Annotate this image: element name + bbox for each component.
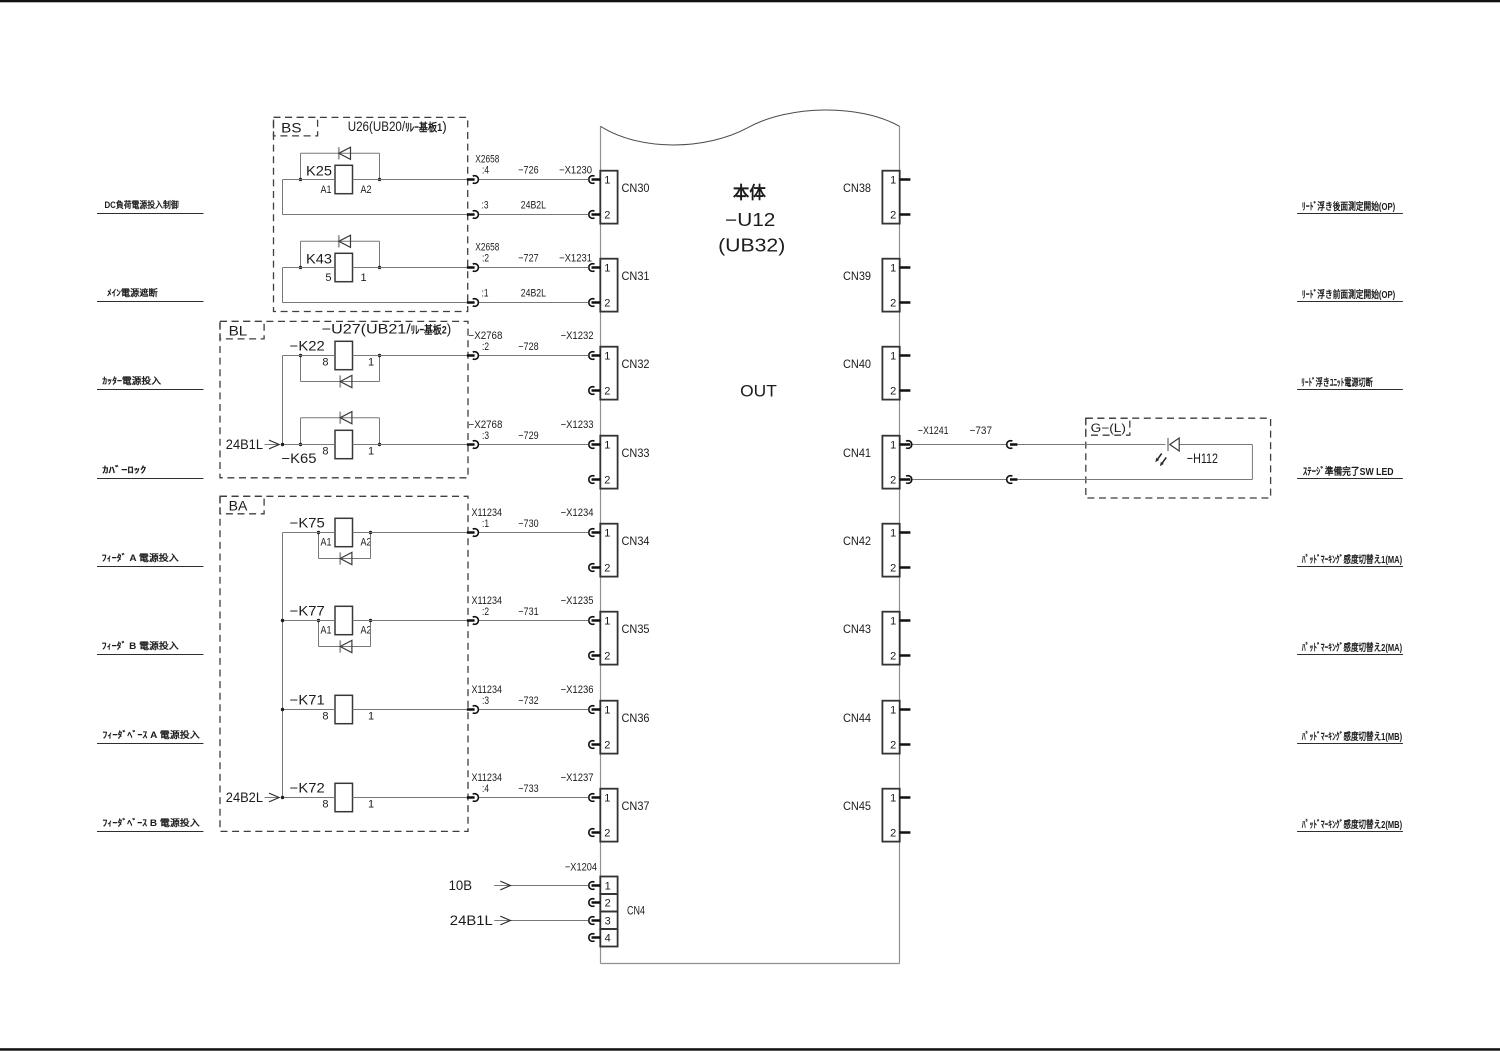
CN37 pin 1 socket bbox=[589, 794, 601, 802]
svg-text:1: 1 bbox=[604, 528, 610, 540]
LED emission arrows bbox=[1155, 454, 1166, 467]
CN44 pin 2 stub bbox=[900, 743, 911, 746]
svg-text:1: 1 bbox=[890, 793, 896, 805]
wire K43 return loop bbox=[283, 268, 589, 303]
connector CN40 bbox=[882, 347, 899, 400]
svg-text:ｶｯﾀｰ電源投入: ｶｯﾀｰ電源投入 bbox=[102, 375, 161, 386]
svg-text::2: :2 bbox=[482, 606, 489, 618]
svg-text:2: 2 bbox=[890, 563, 896, 575]
svg-text:A2: A2 bbox=[361, 536, 372, 548]
net label ﾊﾟｯﾄﾞﾏｰｷﾝｸﾞ感度切替え2(MB) bbox=[1297, 818, 1403, 831]
net label ﾊﾟｯﾄﾞﾏｰｷﾝｸﾞ感度切替え1(MB) bbox=[1297, 730, 1403, 743]
svg-text:ｶﾊﾞｰﾛｯｸ: ｶﾊﾞｰﾛｯｸ bbox=[102, 464, 147, 475]
svg-text:−X1231: −X1231 bbox=[559, 253, 592, 265]
svg-text:8: 8 bbox=[322, 445, 328, 457]
svg-text:CN30: CN30 bbox=[622, 181, 650, 195]
svg-text:ﾘﾚｰ基板1: ﾘﾚｰ基板1 bbox=[405, 120, 442, 134]
sheet top border bbox=[0, 0, 1500, 2]
svg-text:2: 2 bbox=[890, 651, 896, 663]
CN38 pin 2 stub bbox=[900, 213, 911, 216]
CN36 pin 1 socket bbox=[589, 706, 601, 714]
svg-text:2: 2 bbox=[604, 298, 610, 310]
svg-text:ﾌｨｰﾀﾞﾍﾞｰｽ B 電源投入: ﾌｨｰﾀﾞﾍﾞｰｽ B 電源投入 bbox=[102, 817, 199, 828]
svg-text:CN38: CN38 bbox=[843, 181, 871, 195]
24B2L rail BA bbox=[282, 533, 284, 798]
connector CN30 bbox=[600, 171, 617, 224]
net label ﾊﾟｯﾄﾞﾏｰｷﾝｸﾞ感度切替え2(MA) bbox=[1297, 641, 1403, 654]
CN42 pin 1 stub bbox=[900, 531, 911, 534]
svg-text:ﾌｨｰﾀﾞ B 電源投入: ﾌｨｰﾀﾞ B 電源投入 bbox=[102, 640, 179, 651]
svg-text:1: 1 bbox=[368, 798, 374, 810]
svg-text:−K75: −K75 bbox=[290, 516, 325, 531]
wire −K65 coil row bbox=[283, 444, 589, 446]
junction bbox=[281, 443, 284, 446]
svg-text:ﾘｰﾄﾞ浮き後面測定開始(OP): ﾘｰﾄﾞ浮き後面測定開始(OP) bbox=[1302, 200, 1395, 213]
CN33 pin 1 socket bbox=[589, 441, 601, 449]
svg-text:2: 2 bbox=[604, 386, 610, 398]
svg-text:24B1L: 24B1L bbox=[450, 912, 493, 928]
CN41 pin1 receptacle bbox=[906, 441, 912, 449]
junction bbox=[317, 619, 320, 622]
svg-text:−727: −727 bbox=[518, 253, 538, 265]
svg-text:−K22: −K22 bbox=[290, 339, 325, 354]
connector CN33 bbox=[600, 436, 617, 489]
boundary connector pair bbox=[467, 299, 479, 307]
junction bbox=[378, 443, 381, 446]
svg-text:A1: A1 bbox=[321, 536, 332, 548]
CN32 pin 2 socket bbox=[589, 387, 601, 395]
wire K43 coil row bbox=[283, 267, 589, 269]
CN33 pin 2 socket bbox=[589, 476, 601, 484]
relay K43 bbox=[306, 252, 367, 284]
svg-text:8: 8 bbox=[322, 710, 328, 722]
svg-text:CN44: CN44 bbox=[843, 711, 871, 725]
svg-text:10B: 10B bbox=[449, 877, 472, 893]
svg-text:−X1232: −X1232 bbox=[561, 330, 594, 342]
net label ｶｯﾀｰ電源投入 bbox=[97, 375, 203, 390]
boundary connector pair bbox=[467, 794, 479, 802]
svg-text:2: 2 bbox=[890, 828, 896, 840]
svg-text:3: 3 bbox=[605, 916, 611, 928]
junction bbox=[299, 354, 302, 357]
junction bbox=[299, 178, 302, 181]
connector CN44 bbox=[882, 701, 899, 754]
svg-text:5: 5 bbox=[325, 272, 331, 284]
board title U26(UB20/リレー基板1) bbox=[348, 119, 447, 134]
svg-text:4: 4 bbox=[605, 933, 611, 945]
wire K25 coil row bbox=[283, 179, 589, 181]
svg-text:DC負荷電源投入制御: DC負荷電源投入制御 bbox=[105, 199, 179, 210]
CN39 pin 1 stub bbox=[900, 266, 911, 269]
svg-text:24B1L: 24B1L bbox=[226, 436, 263, 452]
CN38 pin 1 stub bbox=[900, 178, 911, 181]
CN4 pin 4 socket bbox=[589, 934, 601, 942]
boundary connector pair bbox=[467, 352, 479, 360]
svg-text:OUT: OUT bbox=[740, 381, 777, 400]
svg-text:−730: −730 bbox=[518, 518, 538, 530]
svg-text:1: 1 bbox=[890, 528, 896, 540]
CN32 pin 1 socket bbox=[589, 352, 601, 360]
boundary connector pair bbox=[467, 529, 479, 537]
svg-text:−H112: −H112 bbox=[1187, 450, 1218, 466]
suppressor diode of −K75 bbox=[319, 533, 371, 565]
svg-text:2: 2 bbox=[890, 475, 896, 487]
svg-text:ﾌｨｰﾀﾞﾍﾞｰｽ A 電源投入: ﾌｨｰﾀﾞﾍﾞｰｽ A 電源投入 bbox=[102, 729, 199, 740]
svg-text::1: :1 bbox=[482, 518, 489, 530]
CN40 pin 1 stub bbox=[900, 354, 911, 357]
CN4 pin 1 socket bbox=[589, 882, 601, 890]
CN43 pin 2 stub bbox=[900, 654, 911, 657]
svg-text:8: 8 bbox=[322, 356, 328, 368]
svg-text:BS: BS bbox=[281, 121, 301, 136]
net label ﾘｰﾄﾞ浮き後面測定開始(OP) bbox=[1297, 200, 1403, 213]
svg-text:−737: −737 bbox=[970, 425, 992, 437]
wire −K22 coil row bbox=[283, 355, 589, 357]
relay −K22 bbox=[290, 339, 374, 370]
board title -U27(UB21/リレー基板2) bbox=[322, 321, 451, 336]
svg-text:CN34: CN34 bbox=[622, 534, 650, 548]
svg-text:): ) bbox=[447, 321, 452, 336]
net label ﾌｨｰﾀﾞﾍﾞｰｽ B 電源投入 bbox=[97, 817, 203, 832]
CN39 pin 2 stub bbox=[900, 301, 911, 304]
relay board BS enclosure bbox=[274, 117, 468, 311]
boundary connector pair bbox=[467, 176, 479, 184]
svg-text:2: 2 bbox=[890, 740, 896, 752]
CN37 pin 2 socket bbox=[589, 829, 601, 837]
svg-text:−X1233: −X1233 bbox=[561, 419, 594, 431]
svg-text:1: 1 bbox=[890, 440, 896, 452]
svg-text:−X1241: −X1241 bbox=[918, 425, 949, 437]
svg-text:1: 1 bbox=[368, 710, 374, 722]
svg-text:1: 1 bbox=[368, 445, 374, 457]
svg-text:ﾊﾟｯﾄﾞﾏｰｷﾝｸﾞ感度切替え1(MB): ﾊﾟｯﾄﾞﾏｰｷﾝｸﾞ感度切替え1(MB) bbox=[1301, 730, 1402, 743]
CN45 pin 1 stub bbox=[900, 796, 911, 799]
CN44 pin 1 stub bbox=[900, 708, 911, 711]
svg-text:1: 1 bbox=[890, 351, 896, 363]
svg-text:(UB32): (UB32) bbox=[718, 235, 785, 255]
svg-text:2: 2 bbox=[890, 210, 896, 222]
lamp unit G-(L) enclosure bbox=[1086, 418, 1271, 498]
junction bbox=[369, 531, 372, 534]
connector CN43 bbox=[882, 612, 899, 665]
suppressor diode of −K22 bbox=[301, 356, 380, 388]
svg-text:−X1230: −X1230 bbox=[559, 165, 592, 177]
relay K25 bbox=[306, 164, 372, 196]
junction bbox=[281, 796, 284, 799]
svg-text:CN42: CN42 bbox=[843, 534, 871, 548]
net label ｽﾃｰｼﾞ準備完了SW LED bbox=[1297, 465, 1403, 478]
svg-text:ﾘﾚｰ基板2: ﾘﾚｰ基板2 bbox=[411, 322, 447, 336]
svg-text:2: 2 bbox=[604, 828, 610, 840]
relay −K75 bbox=[290, 516, 372, 549]
svg-text:BA: BA bbox=[229, 499, 248, 514]
CN43 pin 1 stub bbox=[900, 619, 911, 622]
relay −K65 bbox=[282, 430, 375, 466]
svg-text:G−(L): G−(L) bbox=[1091, 421, 1126, 435]
svg-text:A2: A2 bbox=[361, 624, 372, 636]
svg-text:1: 1 bbox=[604, 440, 610, 452]
inline connector pair bbox=[1007, 476, 1018, 484]
CN31 pin 2 socket bbox=[589, 299, 601, 307]
svg-text:1: 1 bbox=[604, 705, 610, 717]
net label ﾌｨｰﾀﾞ A 電源投入 bbox=[97, 552, 203, 567]
wire −K77 coil row bbox=[283, 620, 589, 622]
svg-text:1: 1 bbox=[890, 263, 896, 275]
connector CN4 bbox=[600, 877, 617, 947]
relay board BL enclosure bbox=[220, 321, 468, 477]
connector CN42 bbox=[882, 524, 899, 577]
svg-text:CN39: CN39 bbox=[843, 269, 871, 283]
wire 10B to CN4.1 bbox=[494, 881, 588, 890]
svg-text:24B2L: 24B2L bbox=[521, 200, 546, 212]
suppressor diode of K25 bbox=[301, 147, 380, 179]
svg-text:ﾊﾟｯﾄﾞﾏｰｷﾝｸﾞ感度切替え2(MB): ﾊﾟｯﾄﾞﾏｰｷﾝｸﾞ感度切替え2(MB) bbox=[1301, 818, 1402, 831]
boundary connector pair bbox=[467, 211, 479, 219]
relay board BA enclosure bbox=[220, 496, 468, 831]
junction bbox=[378, 178, 381, 181]
svg-text:1: 1 bbox=[890, 616, 896, 628]
junction bbox=[378, 354, 381, 357]
CN34 pin 2 socket bbox=[589, 564, 601, 572]
net label ﾘｰﾄﾞ浮き前面測定開始(OP) bbox=[1297, 288, 1403, 301]
junction bbox=[317, 531, 320, 534]
svg-text::3: :3 bbox=[482, 430, 489, 442]
sheet bottom border bbox=[0, 1048, 1500, 1051]
svg-text:8: 8 bbox=[322, 798, 328, 810]
unit U12 (UB32) box bbox=[601, 110, 900, 964]
junction bbox=[281, 708, 284, 711]
svg-text::4: :4 bbox=[482, 783, 489, 795]
svg-text:2: 2 bbox=[604, 210, 610, 222]
CN42 pin 2 stub bbox=[900, 566, 911, 569]
svg-text:本体: 本体 bbox=[733, 183, 767, 203]
svg-text:1: 1 bbox=[890, 175, 896, 187]
net label ﾌｨｰﾀﾞ B 電源投入 bbox=[97, 640, 203, 655]
svg-text:−733: −733 bbox=[518, 783, 538, 795]
svg-text::2: :2 bbox=[482, 341, 489, 353]
CN4 pin 2 socket bbox=[589, 899, 601, 907]
svg-text:−729: −729 bbox=[518, 430, 538, 442]
wire lamp return bbox=[912, 445, 1252, 480]
svg-text:−K77: −K77 bbox=[290, 604, 325, 619]
boundary connector pair bbox=[467, 706, 479, 714]
connector CN34 bbox=[600, 524, 617, 577]
suppressor diode of −K77 bbox=[319, 621, 371, 653]
svg-text:ﾒｲﾝ電源遮断: ﾒｲﾝ電源遮断 bbox=[107, 287, 158, 298]
CN35 pin 2 socket bbox=[589, 652, 601, 660]
svg-text:CN37: CN37 bbox=[622, 799, 650, 813]
svg-text:ﾘｰﾄﾞ浮き前面測定開始(OP): ﾘｰﾄﾞ浮き前面測定開始(OP) bbox=[1302, 288, 1395, 301]
svg-text:CN35: CN35 bbox=[622, 622, 650, 636]
junction bbox=[281, 619, 284, 622]
svg-text:CN41: CN41 bbox=[843, 446, 871, 460]
svg-text:−X1235: −X1235 bbox=[561, 595, 594, 607]
svg-text:ﾊﾟｯﾄﾞﾏｰｷﾝｸﾞ感度切替え1(MA): ﾊﾟｯﾄﾞﾏｰｷﾝｸﾞ感度切替え1(MA) bbox=[1301, 553, 1402, 566]
wire −K75 coil row bbox=[283, 532, 589, 534]
connector CN38 bbox=[882, 171, 899, 224]
svg-text:−K65: −K65 bbox=[282, 451, 317, 466]
svg-text:1: 1 bbox=[604, 793, 610, 805]
svg-text:−K71: −K71 bbox=[290, 693, 325, 708]
svg-text:CN4: CN4 bbox=[627, 903, 645, 917]
junction bbox=[299, 443, 302, 446]
svg-text::2: :2 bbox=[482, 253, 489, 265]
svg-text:−X1234: −X1234 bbox=[561, 507, 594, 519]
relay −K71 bbox=[290, 693, 374, 724]
svg-text:1: 1 bbox=[604, 351, 610, 363]
svg-text:1: 1 bbox=[890, 705, 896, 717]
wire CN41.1 to lamp bbox=[912, 444, 1252, 446]
connector CN35 bbox=[600, 612, 617, 665]
wire 24B2L arrow bbox=[265, 793, 280, 802]
wire −K72 coil row bbox=[283, 797, 589, 799]
net label ﾒｲﾝ電源遮断 bbox=[97, 287, 203, 302]
svg-text:1: 1 bbox=[368, 356, 374, 368]
svg-text:CN40: CN40 bbox=[843, 357, 871, 371]
connector CN41 bbox=[882, 436, 899, 489]
svg-text:A2: A2 bbox=[361, 184, 372, 196]
svg-text:−731: −731 bbox=[518, 606, 538, 618]
svg-text:2: 2 bbox=[604, 563, 610, 575]
svg-text:2: 2 bbox=[890, 386, 896, 398]
CN36 pin 2 socket bbox=[589, 741, 601, 749]
CN35 pin 1 socket bbox=[589, 617, 601, 625]
svg-text:K43: K43 bbox=[306, 252, 332, 267]
connector CN45 bbox=[882, 789, 899, 842]
svg-text::1: :1 bbox=[482, 288, 489, 300]
wire −K71 coil row bbox=[283, 709, 589, 711]
svg-text:BL: BL bbox=[229, 324, 248, 339]
svg-text:−726: −726 bbox=[518, 165, 538, 177]
svg-text:1: 1 bbox=[361, 272, 367, 284]
svg-text:2: 2 bbox=[890, 298, 896, 310]
LED -H112 bbox=[1168, 438, 1179, 451]
relay −K72 bbox=[290, 781, 374, 812]
junction bbox=[369, 619, 372, 622]
24B1L rail BL bbox=[282, 356, 284, 445]
CN30 pin 1 socket bbox=[589, 176, 601, 184]
svg-text:ﾌｨｰﾀﾞ A 電源投入: ﾌｨｰﾀﾞ A 電源投入 bbox=[102, 552, 179, 563]
CN34 pin 1 socket bbox=[589, 529, 601, 537]
svg-text:U26(UB20/: U26(UB20/ bbox=[348, 119, 406, 134]
svg-text:2: 2 bbox=[604, 651, 610, 663]
svg-text:A1: A1 bbox=[321, 184, 332, 196]
inline connector pair bbox=[1007, 441, 1018, 449]
svg-text:CN36: CN36 bbox=[622, 711, 650, 725]
CN31 pin 1 socket bbox=[589, 264, 601, 272]
svg-text:1: 1 bbox=[604, 263, 610, 275]
svg-text:1: 1 bbox=[604, 175, 610, 187]
svg-text:2: 2 bbox=[605, 898, 611, 910]
svg-text:K25: K25 bbox=[306, 164, 332, 179]
boundary connector pair bbox=[467, 441, 479, 449]
net label ﾊﾟｯﾄﾞﾏｰｷﾝｸﾞ感度切替え1(MA) bbox=[1297, 553, 1403, 566]
svg-text:24B2L: 24B2L bbox=[226, 789, 263, 805]
CN41 pin 1 stub bbox=[900, 443, 911, 446]
suppressor diode of −K65 bbox=[301, 412, 380, 445]
svg-text::4: :4 bbox=[482, 165, 489, 177]
CN4 pin 3 socket bbox=[589, 917, 601, 925]
connector CN39 bbox=[882, 259, 899, 312]
svg-text:2: 2 bbox=[604, 740, 610, 752]
net label ﾌｨｰﾀﾞﾍﾞｰｽ A 電源投入 bbox=[97, 729, 203, 744]
svg-text:−X1204: −X1204 bbox=[565, 862, 597, 874]
svg-text:CN31: CN31 bbox=[622, 269, 650, 283]
connector CN31 bbox=[600, 259, 617, 312]
net label DC負荷電源投入制御 bbox=[97, 199, 203, 214]
svg-text:1: 1 bbox=[604, 616, 610, 628]
svg-text:CN45: CN45 bbox=[843, 799, 871, 813]
wire 24B1L arrow bbox=[265, 440, 280, 449]
junction bbox=[299, 266, 302, 269]
suppressor diode of K43 bbox=[301, 235, 380, 267]
svg-text:2: 2 bbox=[604, 475, 610, 487]
svg-text:A1: A1 bbox=[321, 624, 332, 636]
CN30 pin 2 socket bbox=[589, 211, 601, 219]
connector CN32 bbox=[600, 347, 617, 400]
relay −K77 bbox=[290, 604, 372, 637]
svg-text:): ) bbox=[442, 119, 447, 134]
svg-text:−728: −728 bbox=[518, 341, 538, 353]
svg-text::3: :3 bbox=[482, 695, 489, 707]
CN40 pin 2 stub bbox=[900, 389, 911, 392]
junction bbox=[378, 266, 381, 269]
svg-text:ﾘｰﾄﾞ浮きﾕﾆｯﾄ電源切断: ﾘｰﾄﾞ浮きﾕﾆｯﾄ電源切断 bbox=[1301, 376, 1373, 389]
net label ｶﾊﾞｰﾛｯｸ bbox=[97, 464, 203, 479]
svg-text:−U12: −U12 bbox=[725, 210, 775, 230]
svg-text:−X1237: −X1237 bbox=[561, 772, 594, 784]
CN41 pin2 receptacle bbox=[906, 476, 912, 484]
svg-text:CN43: CN43 bbox=[843, 622, 871, 636]
net label ﾘｰﾄﾞ浮きﾕﾆｯﾄ電源切断 bbox=[1297, 376, 1403, 389]
boundary connector pair bbox=[467, 264, 479, 272]
svg-text:CN32: CN32 bbox=[622, 357, 650, 371]
wire 24B1L to CN4.3 bbox=[494, 916, 588, 925]
svg-text:−K72: −K72 bbox=[290, 781, 325, 796]
boundary connector pair bbox=[467, 617, 479, 625]
svg-text:−732: −732 bbox=[518, 695, 538, 707]
svg-text::3: :3 bbox=[482, 200, 489, 212]
connector CN36 bbox=[600, 701, 617, 754]
svg-text:−X1236: −X1236 bbox=[561, 684, 594, 696]
svg-text:24B2L: 24B2L bbox=[521, 288, 546, 300]
connector CN37 bbox=[600, 789, 617, 842]
svg-text:1: 1 bbox=[605, 881, 611, 893]
svg-text:−U27(UB21/: −U27(UB21/ bbox=[322, 321, 411, 336]
CN41 pin 2 stub bbox=[900, 478, 911, 481]
svg-text:CN33: CN33 bbox=[622, 446, 650, 460]
svg-text:ｽﾃｰｼﾞ準備完了SW LED: ｽﾃｰｼﾞ準備完了SW LED bbox=[1303, 465, 1394, 478]
wire K25 return loop bbox=[283, 180, 589, 215]
svg-text:ﾊﾟｯﾄﾞﾏｰｷﾝｸﾞ感度切替え2(MA): ﾊﾟｯﾄﾞﾏｰｷﾝｸﾞ感度切替え2(MA) bbox=[1301, 641, 1402, 654]
CN45 pin 2 stub bbox=[900, 831, 911, 834]
